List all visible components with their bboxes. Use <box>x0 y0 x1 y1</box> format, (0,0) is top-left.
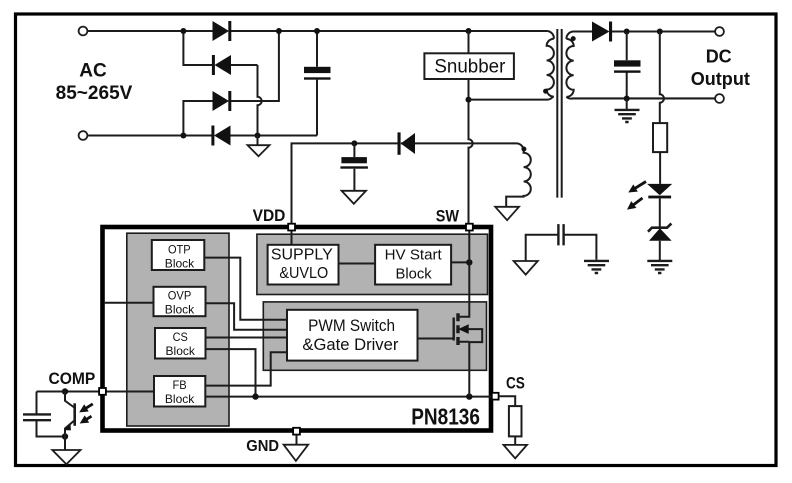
svg-text:PWM Switch: PWM Switch <box>308 317 395 335</box>
svg-text:VDD: VDD <box>253 207 286 225</box>
box OTP Block <box>152 240 205 270</box>
capacitor C2 VDD <box>353 143 355 190</box>
svg-text:AC: AC <box>79 60 107 81</box>
pin VDD <box>288 224 295 231</box>
earth ground zener <box>647 261 672 273</box>
svg-text:&Gate Driver: &Gate Driver <box>302 336 399 354</box>
box FB Block <box>154 376 205 407</box>
node C1 on top line <box>314 28 320 34</box>
arrow opto light 2 <box>85 416 92 420</box>
pin COMP <box>99 388 106 395</box>
IC PN8136 outline <box>103 227 492 431</box>
transformer aux winding <box>506 143 531 206</box>
capacitor C1 bulk <box>316 31 318 136</box>
ground GND pin <box>296 435 298 445</box>
wire output bottom rail with hop <box>573 98 715 100</box>
node MOSFET source junction <box>466 393 472 399</box>
svg-text:PN8136: PN8136 <box>411 404 480 430</box>
diode D6 output rectifier <box>592 22 610 42</box>
ground COMP network <box>52 450 80 464</box>
wire CS to PWM direct <box>206 337 288 339</box>
arrow LED light 1 <box>633 182 646 190</box>
wire snubber/SW vertical <box>469 31 473 225</box>
arrow opto light 1 <box>84 404 93 409</box>
gray block supply/hv <box>257 234 488 294</box>
ground CS resistor <box>504 445 528 459</box>
svg-text:SW: SW <box>436 208 460 226</box>
svg-text:Block: Block <box>165 257 195 271</box>
wire output top line <box>612 31 715 33</box>
wire AC bottom line <box>88 135 318 137</box>
node HV-SW junction <box>466 259 472 265</box>
resistor R1 CS sense <box>509 406 522 436</box>
transistor Q2 optocoupler receive side <box>65 392 74 437</box>
diode D2 bridge <box>215 55 232 75</box>
svg-text:COMP: COMP <box>48 370 95 388</box>
wire OTP to PWM staircase <box>204 258 287 320</box>
node bottom-line bridge tap <box>180 133 186 139</box>
diode D5 VDD rectifier <box>401 133 415 154</box>
node snubber line on top line <box>466 28 472 34</box>
node bridge negative rail <box>255 133 261 139</box>
pin GND <box>293 428 300 435</box>
node aux phase dot <box>521 147 526 152</box>
node D3 riser on top line <box>276 28 282 34</box>
wire SW drain line <box>458 229 469 317</box>
wire to comp ground <box>64 437 66 451</box>
diode D4 bridge bottom <box>214 126 231 146</box>
wire to output resistor <box>660 32 664 124</box>
svg-text:Snubber: Snubber <box>434 55 505 77</box>
wire COMP line <box>37 391 155 393</box>
svg-text:&UVLO: &UVLO <box>279 265 328 282</box>
wire secondary top lead <box>573 31 592 33</box>
wire zener to earth <box>659 241 661 261</box>
wire VDD riser <box>291 229 293 244</box>
wire OVP to left border <box>104 302 154 304</box>
svg-text:CS: CS <box>506 375 525 393</box>
wire D2 anode to ground rail <box>231 65 262 136</box>
node COMP junction <box>62 388 68 394</box>
capacitor CY bridge-ground <box>526 235 597 261</box>
svg-text:CS: CS <box>173 330 188 344</box>
transformer secondary winding <box>566 32 715 99</box>
snubber box <box>424 53 514 79</box>
capacitor C4 COMP <box>23 414 51 420</box>
AC input terminal bottom <box>79 131 88 140</box>
wire VDD rail <box>292 143 515 227</box>
svg-text:OTP: OTP <box>168 242 191 256</box>
svg-text:GND: GND <box>246 438 279 455</box>
resistor R2 output <box>653 123 667 152</box>
svg-text:OVP: OVP <box>168 288 192 302</box>
wire COMP to cap <box>37 392 66 437</box>
node top-line bridge tap <box>180 28 186 34</box>
wire OVP to PWM staircase <box>206 303 288 330</box>
node COMP cap bottom junction <box>62 433 68 439</box>
svg-text:DC: DC <box>706 46 732 66</box>
earth ground CY secondary side <box>584 261 609 273</box>
svg-text:SUPPLY: SUPPLY <box>271 247 333 264</box>
box CS Block <box>155 328 206 359</box>
transistor Q1 MOSFET <box>418 338 454 340</box>
diode D1 bridge top <box>213 21 230 41</box>
ground CY primary side <box>514 261 538 275</box>
svg-text:FB: FB <box>173 378 187 392</box>
svg-text:Output: Output <box>691 69 750 89</box>
svg-text:HV Start: HV Start <box>385 246 443 263</box>
svg-text:Block: Block <box>166 344 196 358</box>
box HV Start Block <box>375 245 451 285</box>
wire D3 cathode to top line <box>231 31 279 101</box>
gray block left <box>127 233 229 426</box>
node secondary phase dot <box>571 36 576 41</box>
capacitor C3 output <box>626 32 628 99</box>
box OVP Block <box>154 287 206 316</box>
wire R2 to LED <box>659 152 661 184</box>
pin SW <box>466 224 473 231</box>
wire CS pin to resistor <box>499 396 515 406</box>
node output cap top <box>624 29 630 35</box>
node primary phase dot <box>543 89 548 94</box>
transformer core <box>557 29 561 198</box>
ground aux winding <box>495 207 519 220</box>
node CS staircase junction <box>252 393 258 399</box>
AC input terminal top <box>79 27 88 36</box>
earth ground output <box>626 99 628 110</box>
box SUPPLY&UVLO <box>268 245 339 285</box>
gray block pwm <box>263 302 486 370</box>
wire AC2 riser to D3 <box>183 101 212 136</box>
wire LED to zener <box>659 198 661 227</box>
pin CS <box>492 393 499 400</box>
DC output terminal top <box>715 27 724 36</box>
wire supply to hv <box>339 263 376 265</box>
wire AC top line <box>88 30 548 32</box>
transformer primary winding <box>469 31 554 100</box>
wire CS net horizontal <box>205 396 492 398</box>
DC output terminal bottom <box>715 94 724 103</box>
node output resistor tap <box>657 29 663 35</box>
svg-text:85~265V: 85~265V <box>56 83 133 104</box>
svg-text:Block: Block <box>165 303 195 317</box>
ground VDD cap <box>342 191 366 204</box>
node output cap bottom <box>624 96 630 102</box>
wire HV to SW line <box>451 261 470 263</box>
wire AC1 riser to D2 <box>183 31 212 65</box>
arrow LED light 2 <box>632 198 643 206</box>
diode D3 bridge <box>213 91 230 111</box>
LED optocoupler emit side <box>647 184 672 195</box>
wire R1 to ground <box>514 436 516 445</box>
wire FB to PWM staircase <box>205 352 287 385</box>
node VDD cap tap <box>351 140 357 146</box>
box PWM Switch & Gate Driver <box>287 310 418 361</box>
zener diode ZD1 <box>649 228 672 241</box>
svg-text:Block: Block <box>165 392 195 406</box>
ground bridge (primary) <box>257 136 259 146</box>
node primary bottom lead <box>466 97 472 103</box>
wire CS sense staircase <box>206 349 256 397</box>
svg-text:Block: Block <box>396 266 433 283</box>
